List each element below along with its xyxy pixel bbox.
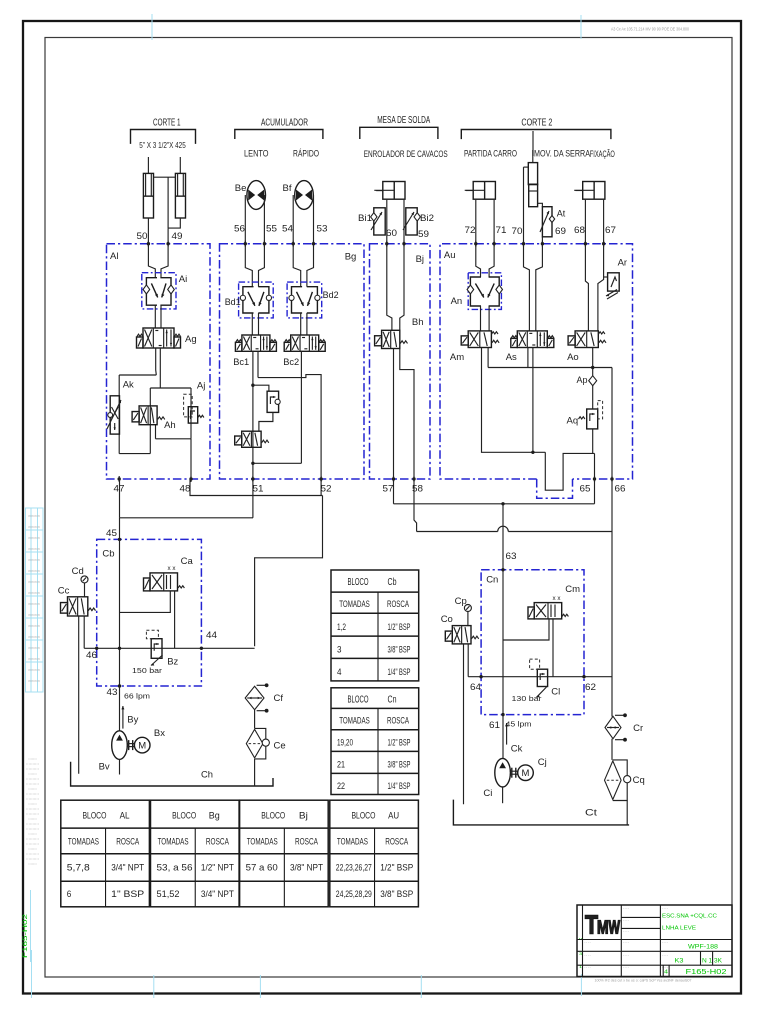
block boundary Al (CORTE 1)	[107, 244, 211, 479]
port 67	[602, 242, 605, 245]
svg-text:xxxx: xxxx	[28, 635, 41, 639]
cylinder 50 (left)	[143, 173, 153, 218]
svg-text:::::::::::: ::::::::::	[26, 782, 39, 786]
svg-text:TOMADAS: TOMADAS	[158, 837, 189, 847]
wire 43 to pump Bv	[119, 686, 121, 731]
svg-text:19,20: 19,20	[337, 737, 353, 748]
svg-text:Cm: Cm	[565, 584, 580, 595]
junction Bc1 drain	[251, 384, 254, 387]
svg-text:BLOCO: BLOCO	[348, 694, 369, 705]
wire port 60 down to Bh	[387, 244, 392, 331]
svg-text:ROSCA: ROSCA	[385, 837, 408, 847]
svg-text:54: 54	[282, 224, 293, 235]
wire relief to pilot valve (staircase)	[259, 412, 273, 431]
wires ports 54/53 into Bd2	[293, 244, 301, 287]
svg-text:::::::::::: ::::::::::	[28, 832, 37, 836]
wire As to line E	[527, 348, 529, 368]
svg-text:::::::::::: ::::::::::	[26, 822, 39, 826]
cylinder rod lines CORTE 1	[147, 157, 149, 173]
wire Ao down through line E to Ap	[592, 348, 594, 376]
svg-text:57 a 60: 57 a 60	[246, 863, 278, 873]
svg-text:5,7,8: 5,7,8	[67, 863, 90, 873]
table BLOCO AU	[330, 800, 419, 907]
svg-text:100% IF2 des cut x be us o: ca: 100% IF2 des cut x be us o: caPS ScP Yes…	[595, 978, 693, 983]
valve Ca	[150, 573, 178, 591]
wire Cm right port to main line	[552, 619, 554, 677]
svg-text:3/4" NPT: 3/4" NPT	[201, 889, 234, 899]
filter Ce	[255, 728, 266, 759]
wires Bd1 to Bc1	[251, 313, 253, 335]
svg-text:::::::::::: ::::::::::	[28, 772, 37, 776]
svg-text:xxxx: xxxx	[28, 591, 41, 595]
tank line Ch	[71, 762, 273, 786]
svg-text:ROSCA: ROSCA	[387, 599, 409, 610]
wire Cr to Cq	[611, 739, 613, 760]
svg-text:....: ....	[623, 965, 630, 969]
Cn main pressure line	[468, 676, 612, 678]
port 52	[319, 477, 322, 480]
table BLOCO Bg	[151, 800, 240, 907]
svg-text:BLOCO: BLOCO	[82, 811, 106, 822]
wire Bh right branch to port 58	[400, 349, 414, 480]
svg-text:Ao: Ao	[567, 352, 579, 363]
wire Bc2 drain to port 51 wire	[253, 462, 302, 464]
svg-text:::::::::::: ::::::::::	[28, 787, 37, 791]
svg-text:F165-H02: F165-H02	[686, 969, 727, 976]
svg-text:1/4" BSP: 1/4" BSP	[388, 781, 411, 792]
wire Co left port to tank (long)	[463, 644, 465, 804]
cyan fold ticks bottom	[153, 975, 155, 998]
svg-text:56: 56	[234, 224, 245, 235]
svg-text:53, a 56: 53, a 56	[157, 863, 193, 873]
svg-text:69: 69	[555, 226, 566, 237]
svg-text:4: 4	[664, 970, 668, 976]
svg-text:::::::::::: ::::::::::	[28, 817, 37, 821]
svg-text:Cc: Cc	[58, 586, 70, 597]
wires Bd2 to Bc2	[300, 313, 302, 335]
svg-text:Au: Au	[444, 250, 456, 261]
block boundary Au (CORTE 2)	[440, 244, 633, 479]
svg-text:::::::::::: ::::::::::	[28, 862, 37, 866]
svg-text:....: ....	[662, 953, 669, 957]
wire Cq to tank line Ct	[626, 801, 628, 825]
Cb main pressure line (44)	[84, 647, 254, 649]
riser inside Cn	[502, 570, 504, 715]
svg-text:62: 62	[585, 682, 596, 693]
wire Am left drain down	[482, 348, 546, 453]
svg-text:M: M	[597, 918, 609, 938]
port 45	[118, 538, 121, 541]
svg-text:::::::::::: ::::::::::	[26, 842, 39, 846]
wire Ce to tank line	[254, 759, 256, 786]
wire Ag-left to Ak loop top	[119, 374, 156, 376]
svg-text:::::::::::: ::::::::::	[28, 847, 37, 851]
directional valve Ag	[143, 328, 174, 348]
wires ports 72/71 into An	[476, 244, 481, 277]
svg-text:::::::::::: ::::::::::	[26, 827, 39, 831]
svg-text:....: ....	[623, 929, 630, 933]
coupling Bv-Bx	[128, 740, 130, 750]
svg-text:Cp: Cp	[455, 596, 467, 607]
svg-text:60: 60	[386, 228, 397, 239]
wire right riser to Cr	[611, 532, 613, 717]
valve Aj (pilot, dashed)	[184, 394, 193, 417]
wire cylinder 50 to port 50	[147, 218, 149, 244]
svg-text:F165-H02: F165-H02	[22, 913, 29, 958]
wires Ag down to Ah block	[155, 348, 158, 375]
port 56	[244, 242, 247, 245]
pump suction line	[502, 787, 504, 803]
wire Bc1 to port 51 (long)	[252, 351, 254, 479]
port 43 on Cb bottom	[118, 684, 121, 687]
svg-text:x x: x x	[168, 565, 177, 572]
svg-text:::::::::::: ::::::::::	[26, 777, 39, 781]
svg-text:xxxx: xxxx	[28, 646, 41, 650]
svg-text:xxxx: xxxx	[28, 580, 41, 584]
svg-text:43: 43	[107, 687, 118, 698]
coupling Ci-Cj	[511, 768, 513, 778]
valve Co	[452, 626, 471, 644]
cylinder PARTIDA CARRO	[473, 182, 495, 200]
svg-text:Aj: Aj	[197, 381, 205, 392]
wire Bh to port 57	[393, 349, 395, 480]
svg-text:Cn: Cn	[388, 694, 397, 705]
filter Cq	[613, 760, 627, 801]
wire line A down to Cf column	[255, 496, 323, 647]
flow arrow By	[122, 706, 124, 729]
svg-text:xxxx: xxxx	[28, 547, 41, 551]
block boundary Cn (blue)	[481, 570, 584, 715]
svg-text:TOMADAS: TOMADAS	[68, 837, 99, 847]
relief valve Aq	[587, 409, 598, 429]
svg-text:50: 50	[137, 231, 148, 242]
wire port 48 to port 52 (line A)	[190, 479, 323, 496]
svg-text:59: 59	[418, 229, 429, 240]
port 70	[522, 242, 525, 245]
wire Bc1 pilot relief branch	[253, 385, 269, 391]
svg-text:66: 66	[615, 484, 626, 495]
pilot check module Ai (blue box)	[142, 273, 176, 309]
svg-text:64: 64	[470, 682, 481, 693]
svg-text:Co: Co	[441, 614, 453, 625]
wire As drain crossing to tank header	[532, 348, 534, 453]
svg-text:52: 52	[321, 484, 332, 495]
svg-text:::::::::::: ::::::::::	[26, 797, 39, 801]
svg-text:Cf: Cf	[274, 693, 284, 704]
svg-text:Bh: Bh	[412, 317, 424, 328]
svg-text:51,52: 51,52	[157, 889, 180, 899]
svg-text:1,2: 1,2	[337, 622, 346, 633]
svg-text:1/4" BSP: 1/4" BSP	[388, 667, 411, 678]
svg-text:As: As	[506, 352, 517, 363]
svg-text:MOV. DA SERRA: MOV. DA SERRA	[534, 149, 590, 160]
port 47	[118, 477, 121, 480]
svg-text:Am: Am	[450, 352, 464, 363]
svg-text:3/8" BSP: 3/8" BSP	[388, 645, 411, 656]
svg-text:Ar: Ar	[618, 258, 628, 269]
svg-text:Ak: Ak	[123, 380, 134, 391]
svg-text:130 bar: 130 bar	[512, 694, 543, 703]
cylinder 49 (right)	[175, 173, 185, 218]
tank box bottom of Au	[545, 452, 594, 490]
svg-text:Bz: Bz	[167, 657, 178, 668]
svg-text:::::::::::: ::::::::::	[26, 837, 39, 841]
svg-text:LENTO: LENTO	[244, 149, 269, 160]
svg-text:A3 Cx Ax 105.71.214 MV 90 90 P: A3 Cx Ax 105.71.214 MV 90 90 POE DE 304.…	[611, 27, 690, 32]
svg-text:Bg: Bg	[345, 252, 357, 263]
svg-text:Bj: Bj	[299, 811, 308, 822]
svg-text:::::::::::: ::::::::::	[26, 792, 39, 796]
wire Cc left port to tank (long)	[78, 616, 80, 774]
svg-text:44: 44	[206, 630, 217, 641]
drain header in Bg	[258, 375, 321, 479]
wire port 65 riser	[594, 453, 596, 503]
cyan fold tick top right	[580, 15, 582, 39]
svg-text:BLOCO: BLOCO	[261, 811, 285, 822]
port 61 on Cn bottom	[501, 713, 504, 716]
directional valve Bc1	[242, 335, 270, 351]
svg-text:Al: Al	[110, 251, 118, 262]
svg-text:Cq: Cq	[633, 775, 645, 786]
counterbalance valve At	[542, 207, 552, 237]
electric motor Bx	[134, 737, 150, 753]
wire MOV cylinder top-left down to port 70	[524, 166, 529, 168]
svg-text:1/2" BSP: 1/2" BSP	[380, 863, 413, 873]
svg-text:....: ....	[623, 940, 630, 944]
svg-text:Ct: Ct	[585, 808, 597, 819]
flow meter Cf	[245, 686, 264, 709]
port 63 dot	[501, 568, 504, 571]
cylinder MOV. DA SERRA (vertical)	[532, 150, 534, 163]
directional valve Bc2	[291, 335, 319, 351]
svg-text:Bi1: Bi1	[358, 213, 372, 223]
svg-text:LNHA LEVE: LNHA LEVE	[662, 926, 696, 932]
svg-text:55: 55	[266, 224, 277, 235]
svg-text:::::::::::: ::::::::::	[26, 852, 39, 856]
title block verticals	[620, 905, 622, 977]
counterbalance valve Bi2	[406, 208, 417, 235]
svg-text:72: 72	[465, 225, 476, 236]
port 71	[492, 242, 495, 245]
svg-text:Bd2: Bd2	[323, 290, 339, 301]
svg-text:xxxx: xxxx	[28, 613, 41, 617]
counterbalance valve Bi1	[374, 208, 385, 235]
svg-text:Cb: Cb	[388, 577, 397, 588]
svg-text:46: 46	[86, 650, 97, 661]
wire port 59 down to Bh	[400, 244, 404, 331]
svg-text:xxxx: xxxx	[28, 525, 41, 529]
svg-text:Ai: Ai	[179, 274, 187, 285]
svg-text:....: ....	[623, 906, 630, 910]
wire Ca right port to main line	[174, 591, 176, 648]
svg-text:57: 57	[383, 484, 394, 495]
svg-text:M: M	[522, 768, 530, 779]
directional valve As	[517, 331, 547, 348]
svg-text:....: ....	[662, 906, 669, 910]
blue detour around tank box of Au	[537, 479, 573, 498]
svg-text:45: 45	[106, 528, 117, 539]
svg-text:At: At	[557, 209, 566, 219]
svg-text:W: W	[609, 918, 621, 938]
wire Ca left port loop to riser	[120, 591, 171, 613]
svg-text:3/4" NPT: 3/4" NPT	[111, 863, 144, 873]
svg-text:ROSCA: ROSCA	[387, 715, 409, 726]
valve Ao	[575, 331, 598, 348]
cylinder rod ENROLADOR	[376, 190, 383, 192]
svg-text:::::::::::: ::::::::::	[26, 857, 39, 861]
valve Am	[468, 331, 491, 348]
wire line E to port 66 riser	[611, 368, 613, 532]
svg-text:Bj: Bj	[416, 254, 424, 265]
svg-text:ESC.SNA +CQL.CC: ESC.SNA +CQL.CC	[662, 914, 717, 920]
valve Cc	[68, 597, 88, 616]
wire to Ar	[604, 276, 608, 278]
accumulator Be	[247, 181, 266, 210]
port 58	[412, 477, 415, 480]
svg-text:xxxx: xxxx	[28, 602, 41, 606]
svg-text:TOMADAS: TOMADAS	[339, 715, 370, 726]
svg-text:K3: K3	[675, 959, 685, 965]
riser inside Cb	[119, 539, 121, 686]
svg-text:Ap: Ap	[577, 375, 588, 386]
port 57	[392, 477, 395, 480]
TMW logo	[585, 910, 620, 940]
Ah sub-rect right edge	[190, 388, 192, 439]
svg-text:1/2" NPT: 1/2" NPT	[201, 863, 234, 873]
svg-text:Bf: Bf	[283, 183, 292, 194]
svg-text:BLOCO: BLOCO	[351, 811, 375, 822]
port 62 on Cn edge	[582, 675, 585, 678]
wire At to port 69	[541, 237, 543, 244]
wire Cc right port to main line	[83, 616, 85, 648]
port 65	[593, 477, 596, 480]
svg-text:CORTE 2: CORTE 2	[521, 118, 552, 129]
svg-text:Ce: Ce	[274, 741, 286, 752]
svg-text:66 lpm: 66 lpm	[124, 692, 150, 701]
relief valve Bz on main line	[151, 639, 162, 659]
svg-text:WPF-188: WPF-188	[688, 945, 719, 951]
row4 extra verticals	[662, 965, 664, 976]
svg-text:Cn: Cn	[486, 575, 498, 586]
block boundary Cb (blue)	[97, 539, 202, 686]
pilot solenoid valve in Bg	[242, 431, 261, 447]
wire Co right port to main line	[467, 644, 469, 677]
line D with bridge hop	[417, 531, 498, 533]
accumulator Bf	[295, 181, 314, 210]
svg-text:ACUMULADOR: ACUMULADOR	[261, 118, 308, 129]
svg-text:Cd: Cd	[72, 566, 84, 577]
port 54	[292, 242, 295, 245]
wire port 58 riser to line D	[414, 479, 417, 532]
wire Ap to Aq	[592, 386, 594, 409]
tick between PARTIDA CARRO and MOV. DA SERRA	[532, 131, 534, 156]
svg-text:53: 53	[317, 224, 328, 235]
svg-text:v: v	[579, 936, 582, 941]
port 49	[166, 242, 169, 245]
svg-text:....: ....	[623, 953, 630, 957]
svg-text:22: 22	[337, 781, 345, 792]
svg-text:63: 63	[506, 551, 517, 562]
line E collector	[488, 367, 612, 369]
svg-text:3/8" NPT: 3/8" NPT	[290, 863, 323, 873]
port 72	[474, 242, 477, 245]
wire right cylinder bottom to tap	[168, 218, 180, 228]
svg-text:xxxx: xxxx	[28, 657, 41, 661]
svg-text:....: ....	[662, 965, 669, 969]
valve Cm	[534, 603, 562, 619]
svg-text:BLOCO: BLOCO	[172, 811, 196, 822]
table BLOCO AL	[61, 800, 150, 907]
pilot check module Bd1 (blue box)	[239, 282, 274, 318]
svg-text:....: ....	[623, 918, 630, 922]
shuttle/drain valve Ar	[608, 273, 620, 291]
svg-text:Aq: Aq	[567, 416, 579, 427]
svg-text:1" BSP: 1" BSP	[111, 889, 144, 899]
junction riser-mainline Cb	[118, 647, 121, 650]
svg-text:::::::::::: ::::::::::	[26, 767, 39, 771]
wires Be to ports 56 55	[244, 202, 246, 244]
wire connector tap down	[167, 177, 169, 228]
wire Bc2 to drain header	[300, 351, 302, 377]
valve Bh	[382, 330, 400, 348]
Ak loop right riser	[149, 388, 151, 454]
relief valve Cl on main line	[537, 669, 547, 686]
wires ports 68/67 into Ao	[585, 244, 588, 331]
wires Ai to valve Ag	[154, 305, 156, 328]
wire port 49 into Ai	[161, 244, 168, 278]
svg-text:21: 21	[337, 759, 345, 770]
svg-text:BLOCO: BLOCO	[348, 577, 369, 588]
cyan tick bottom-left corner	[31, 950, 33, 998]
riser 63 from line C to Cn	[502, 504, 504, 570]
wire MOV cylinder bottom to At and port 69	[538, 203, 543, 206]
svg-text:MESA DE SOLDA: MESA DE SOLDA	[377, 115, 430, 126]
svg-text:ENROLADOR DE CAVACOS: ENROLADOR DE CAVACOS	[364, 149, 448, 160]
wire port 57 riser to line C	[393, 479, 395, 504]
port 60	[385, 242, 388, 245]
svg-text:3/8" BSP: 3/8" BSP	[388, 759, 411, 770]
junction 64	[479, 675, 482, 678]
wires Bf to ports 54 53	[292, 202, 294, 244]
flow control valve Ak	[110, 396, 119, 434]
svg-text:M: M	[138, 741, 146, 752]
Ah sub-rect left stub	[155, 425, 157, 439]
svg-text:24,25,28,29: 24,25,28,29	[336, 889, 372, 899]
svg-text:Ah: Ah	[164, 420, 176, 431]
svg-text:x x: x x	[553, 595, 562, 602]
svg-text:1/2" BSP: 1/2" BSP	[388, 622, 411, 633]
svg-text:Bc2: Bc2	[283, 357, 299, 368]
Ak loop left side	[118, 375, 120, 454]
cylinder FIXACAO	[583, 182, 605, 200]
svg-text:70: 70	[512, 226, 523, 237]
Ak loop bottom	[119, 453, 150, 455]
svg-text:1/2" BSP: 1/2" BSP	[388, 737, 411, 748]
rod-end connector between cylinders	[154, 176, 176, 178]
svg-text:4: 4	[337, 667, 342, 678]
gauge Cp	[464, 605, 471, 612]
title block rows	[577, 939, 732, 941]
table BLOCO Cn	[331, 688, 419, 795]
svg-text:61: 61	[489, 720, 500, 731]
svg-text:6: 6	[67, 889, 72, 899]
gauge Cd	[81, 576, 88, 583]
svg-text:An: An	[451, 296, 463, 307]
svg-text:xxxx: xxxx	[28, 668, 41, 672]
svg-text:Bg: Bg	[209, 811, 220, 822]
Ah sub-rect bottom edge	[156, 438, 192, 440]
junction 46	[95, 647, 98, 650]
